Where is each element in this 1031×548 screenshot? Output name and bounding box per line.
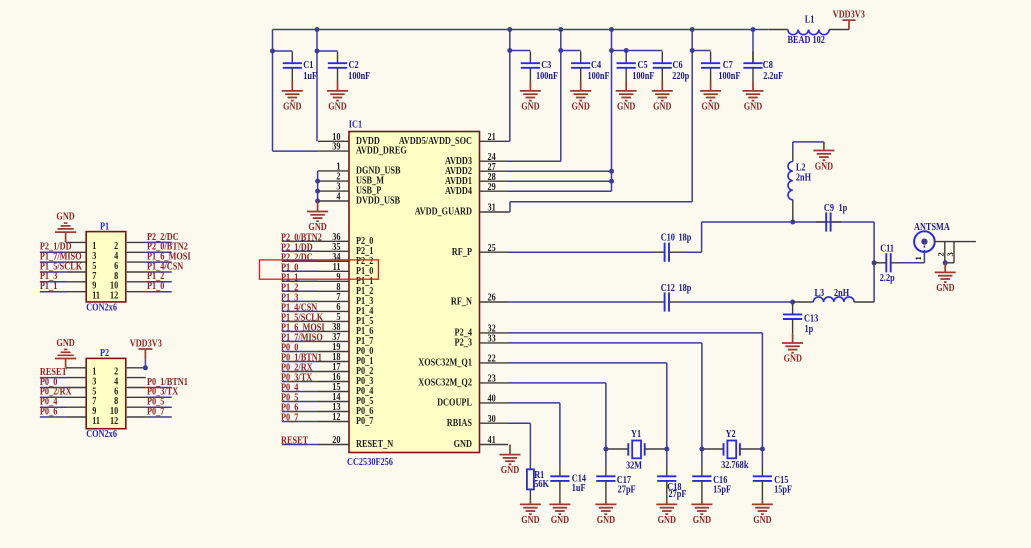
pin 26 RF_N (right): [451, 293, 508, 308]
wire + net P0_3/TX (P2 right): [146, 387, 179, 398]
capacitor C12: [652, 283, 691, 312]
pin 41 GND (right): [454, 435, 508, 450]
ground GND under C15: [752, 500, 773, 526]
svg-text:P2_3: P2_3: [455, 338, 473, 349]
pin 10 DVDD (left): [318, 132, 380, 147]
svg-text:BEAD 102: BEAD 102: [788, 35, 826, 46]
wire pin29: [508, 190, 612, 192]
svg-text:56K: 56K: [534, 479, 549, 490]
wire pin27: [508, 170, 612, 172]
svg-text:32M: 32M: [626, 461, 642, 472]
pin 27 AVDD2 (right): [445, 162, 508, 177]
wire + net P2_2/DC (P1 right): [146, 232, 179, 243]
svg-text:RF_N: RF_N: [451, 297, 472, 308]
capacitor C5: [617, 52, 655, 83]
wire + net P0_2/RX: [281, 363, 318, 374]
svg-text:220p: 220p: [672, 71, 689, 82]
wire C1 feed: [270, 49, 292, 54]
capacitor C17: [596, 449, 635, 500]
pin 8 of P1: [114, 271, 146, 282]
svg-text:2.2uF: 2.2uF: [763, 71, 783, 82]
svg-text:1: 1: [913, 256, 923, 260]
wire pin28: [508, 180, 612, 182]
svg-text:Y2: Y2: [726, 429, 736, 440]
pin 14 P0_5 (left): [318, 392, 374, 407]
wire + net P0_2/RX (P2 left): [40, 387, 72, 398]
pin 2 USB_M (left): [318, 172, 384, 187]
pin 3 of P1: [66, 251, 97, 262]
svg-text:CON2x6: CON2x6: [86, 429, 117, 440]
svg-text:GND: GND: [308, 222, 326, 233]
crystal Y1: [603, 429, 669, 472]
svg-text:IC1: IC1: [349, 120, 363, 131]
pin 8 of P2: [114, 396, 146, 407]
ground GND under antenna: [935, 263, 956, 295]
pin 12 P0_7 (left): [318, 412, 374, 427]
pin 4 DVDD_USB (left): [318, 192, 401, 207]
wire + net P2_0/BTN2 (P1 right): [146, 242, 188, 253]
svg-text:C9: C9: [824, 203, 834, 214]
pin 37 P1_7 (left): [318, 332, 374, 347]
selection box (red) around P1_0 / P1_1: [260, 260, 379, 279]
pin 3 of ANTSMA: [945, 242, 955, 263]
wire C5 C6 feed / AVDD2 AVDD1 AVDD4 drop: [609, 30, 662, 192]
svg-text:GND: GND: [454, 439, 472, 450]
wire + net P1_7/MISO (P1 left): [40, 252, 82, 263]
pin 25 RF_P (right): [452, 243, 508, 258]
svg-text:P0_7: P0_7: [281, 413, 299, 424]
pin 11 of P1: [66, 291, 100, 302]
wire + net P1_4/CSN (P1 right): [146, 262, 184, 273]
wire + net P0_4: [281, 383, 318, 394]
pin 28 AVDD1 (right): [445, 172, 508, 187]
wire pin21 to rail: [508, 140, 510, 142]
svg-text:32.768k: 32.768k: [721, 460, 749, 471]
pin 11 of P2: [66, 416, 100, 427]
svg-text:23: 23: [487, 374, 495, 385]
pin 13 P0_6 (left): [318, 402, 374, 417]
antenna connector ANTSMA: [914, 222, 950, 252]
svg-text:26: 26: [487, 293, 495, 304]
inductor L2: [788, 142, 824, 225]
svg-text:100nF: 100nF: [632, 71, 654, 82]
wire + net P0_6 (P2 left): [40, 407, 66, 418]
pin 17 P0_2 (left): [318, 362, 374, 377]
svg-text:CC2530F256: CC2530F256: [347, 457, 393, 468]
pin 6 P1_4 (left): [318, 302, 374, 317]
pin 6 of P2: [114, 386, 146, 397]
wire + net P2_1/DD (P1 left): [40, 242, 72, 253]
ground GND under R1: [520, 500, 541, 526]
svg-text:11: 11: [92, 416, 100, 427]
svg-text:18p: 18p: [678, 283, 691, 294]
pin 9 P1_1 (left): [318, 272, 374, 287]
pin 35 P2_1 (left): [318, 242, 374, 257]
ground GND under C8: [743, 81, 764, 113]
svg-text:AVDD_GUARD: AVDD_GUARD: [415, 207, 472, 218]
wire + net P2_2/DC: [281, 252, 318, 263]
wire pin24: [508, 160, 561, 162]
wire + net P1_5/SCLK: [281, 313, 324, 324]
svg-text:C10: C10: [661, 233, 675, 244]
svg-text:XOSC32M_Q2: XOSC32M_Q2: [418, 378, 472, 389]
pin 8 P1_2 (left): [318, 282, 374, 297]
svg-text:XOSC32M_Q1: XOSC32M_Q1: [418, 358, 472, 369]
svg-text:P1: P1: [100, 222, 109, 233]
svg-text:41: 41: [487, 435, 495, 446]
svg-text:P1_0: P1_0: [147, 281, 165, 292]
svg-text:VDD3V3: VDD3V3: [833, 9, 865, 20]
svg-text:11: 11: [92, 291, 100, 302]
svg-text:GND: GND: [744, 102, 762, 113]
capacitor C16: [692, 449, 731, 500]
wire + net P0_0 (P2 left): [40, 377, 66, 388]
svg-text:GND: GND: [653, 102, 671, 113]
svg-text:GND: GND: [501, 465, 519, 476]
pin 4 of P1: [114, 251, 146, 262]
wire + net P2_0/BTN2: [281, 232, 322, 243]
svg-text:GND: GND: [617, 102, 635, 113]
svg-text:GND: GND: [597, 515, 615, 526]
svg-text:GND: GND: [283, 102, 301, 113]
pin 23 XOSC32M_Q2 (right): [418, 374, 508, 389]
capacitor C4: [571, 52, 610, 83]
svg-text:C13: C13: [804, 313, 818, 324]
svg-text:C11: C11: [880, 244, 894, 255]
svg-text:GND: GND: [56, 338, 74, 349]
ground GND under C4: [570, 81, 591, 113]
capacitor C13: [783, 302, 818, 335]
svg-text:AVDD4: AVDD4: [445, 186, 472, 197]
ground GND under C17: [595, 500, 616, 526]
svg-text:CON2x6: CON2x6: [86, 302, 117, 313]
capacitor C1: [283, 52, 318, 83]
pin 1 of P2: [66, 367, 97, 378]
connector P1 CON2x6 body: [86, 222, 126, 314]
svg-text:DCOUPL: DCOUPL: [437, 398, 472, 409]
pin 4 of P2: [114, 377, 146, 388]
wire C2 feed / DVDD drop: [315, 30, 338, 142]
svg-text:P0_6: P0_6: [40, 407, 58, 418]
pin 1 of ANTSMA: [913, 252, 925, 263]
wire + net P1_2 (P1 right): [146, 271, 172, 282]
ground GND under C3: [520, 81, 541, 113]
wire + net P0_4 (P2 left): [40, 397, 66, 408]
wire AVDD_DREG (pin 39): [273, 51, 319, 151]
pin 5 of P2: [66, 386, 97, 397]
wire USB pins tie: [315, 171, 320, 204]
ground GND under C1: [282, 81, 303, 113]
ground GND at pin 41: [500, 445, 521, 477]
pin 16 P0_3 (left): [318, 372, 374, 387]
wire + net P1_3: [281, 293, 318, 304]
svg-text:20: 20: [332, 435, 340, 446]
capacitor C8: [743, 52, 783, 83]
pin 5 P1_5 (left): [318, 312, 374, 327]
wire VDD3V3 top rail: [273, 30, 769, 52]
svg-text:C5: C5: [638, 60, 648, 71]
svg-text:3: 3: [945, 252, 955, 256]
wire C4 feed / AVDD3 drop: [558, 30, 580, 162]
svg-text:C6: C6: [673, 60, 683, 71]
svg-text:GND: GND: [693, 515, 711, 526]
svg-text:12: 12: [332, 412, 340, 423]
pin 40 DCOUPL (right): [437, 394, 508, 409]
pin 7 of P1: [66, 271, 97, 282]
pin 2 of P1: [114, 241, 146, 252]
svg-text:22: 22: [487, 354, 495, 365]
wire RF_N: [508, 300, 795, 305]
svg-text:1p: 1p: [804, 324, 813, 335]
wire + net P0_1/BTN1 (P2 right): [146, 377, 188, 388]
ground GND at P2 pin1: [55, 338, 76, 368]
svg-text:100nF: 100nF: [718, 71, 740, 82]
capacitor C18: [657, 449, 686, 500]
svg-text:RESET: RESET: [281, 436, 309, 447]
svg-text:DVDD_USB: DVDD_USB: [356, 196, 401, 207]
pin 3 of P2: [66, 377, 97, 388]
wire RF_P: [508, 222, 874, 252]
svg-text:2nH: 2nH: [834, 288, 850, 299]
pin 5 of P1: [66, 261, 97, 272]
ground GND under C14: [549, 500, 570, 526]
svg-text:33: 33: [487, 334, 495, 345]
wire C8 drop: [752, 30, 754, 64]
svg-text:P2: P2: [100, 348, 109, 359]
pin 2 of ANTSMA: [936, 242, 946, 263]
svg-text:C8: C8: [763, 60, 773, 71]
svg-text:Y1: Y1: [631, 429, 641, 440]
pin 19 P0_0 (left): [318, 342, 374, 357]
svg-text:RBIAS: RBIAS: [447, 418, 472, 429]
wire + net P0_5: [281, 393, 318, 404]
capacitor C9: [816, 203, 847, 231]
svg-text:GND: GND: [815, 161, 833, 172]
svg-text:C12: C12: [661, 283, 675, 294]
op-amp U1 : IC1 CC2530F256 chip body: [347, 120, 480, 468]
svg-text:100nF: 100nF: [348, 71, 370, 82]
power VDD3V3 (top right): [833, 9, 865, 29]
wire + net P0_7: [281, 413, 318, 424]
svg-text:2.2p: 2.2p: [880, 273, 895, 284]
pin 9 of P2: [66, 406, 97, 417]
capacitor C2: [328, 52, 371, 83]
svg-text:L1: L1: [805, 15, 815, 26]
wire C3 feed / AVDD5 drop: [507, 30, 530, 142]
wire + net RESET (P2 left): [40, 367, 68, 378]
ground GND under C18: [656, 500, 677, 526]
ground GND for USB pins: [307, 201, 328, 233]
capacitor C14: [550, 466, 586, 500]
pin 39 AVDD_DREG (left): [318, 142, 407, 157]
pin 12 of P2: [110, 416, 146, 427]
svg-text:P0_7: P0_7: [147, 407, 165, 418]
inductor L3: [793, 288, 875, 302]
wire + net P0_5 (P2 right): [146, 397, 172, 408]
svg-text:RF_P: RF_P: [452, 247, 472, 258]
svg-text:18p: 18p: [678, 233, 691, 244]
pin 33 P2_3 (right): [455, 334, 508, 349]
pin 6 of P1: [114, 261, 146, 272]
svg-text:GND: GND: [572, 102, 590, 113]
svg-text:GND: GND: [521, 102, 539, 113]
svg-text:31: 31: [487, 203, 495, 214]
wire DCOUPL (pin 40) to C14: [508, 403, 560, 466]
power VDD3V3 at P2 pin2: [130, 339, 162, 371]
svg-text:27pF: 27pF: [618, 485, 636, 496]
wire + net P1_6_MOSI (P1 right): [146, 252, 191, 263]
inductor L1: [769, 15, 849, 47]
pin 24 AVDD3 (right): [445, 152, 508, 167]
svg-text:100nF: 100nF: [588, 71, 610, 82]
svg-text:25: 25: [487, 243, 495, 254]
wire + net P1_2: [281, 282, 318, 293]
wire antenna shield tie: [943, 260, 954, 265]
wire + net P0_3/TX: [281, 373, 318, 384]
svg-text:GND: GND: [551, 515, 569, 526]
capacitor C11: [874, 244, 924, 285]
wire + net RESET: [281, 436, 318, 447]
wire + net P1_0 (P1 right): [146, 281, 172, 292]
capacitor C7: [701, 52, 741, 83]
svg-text:C3: C3: [541, 60, 551, 71]
resistor R1: [527, 464, 550, 500]
pin 1 DGND_USB (left): [318, 162, 401, 177]
svg-text:L3: L3: [814, 288, 824, 299]
svg-text:29: 29: [487, 182, 495, 193]
wire RBIAS (pin 30) to R1: [508, 423, 530, 464]
svg-text:C1: C1: [303, 60, 313, 71]
wire + net P1_5/SCLK (P1 left): [40, 262, 83, 273]
svg-text:P1_1: P1_1: [40, 281, 58, 292]
pin 11 P1_0 (left): [318, 262, 374, 277]
pin 32 P2_4 (right): [455, 324, 508, 339]
svg-text:12: 12: [110, 416, 118, 427]
svg-text:P0_7: P0_7: [356, 416, 374, 427]
wire + net P0_0: [281, 343, 318, 354]
wire + net P0_1/BTN1: [281, 353, 322, 364]
wire XOSC32M_Q2 (pin 23) to Y1 left: [508, 383, 606, 449]
pin 22 XOSC32M_Q1 (right): [418, 354, 508, 369]
pin 7 P1_3 (left): [318, 292, 374, 307]
svg-text:AVDD5/AVDD_SOC: AVDD5/AVDD_SOC: [399, 136, 472, 147]
pin 29 AVDD4 (right): [445, 182, 508, 197]
connector P2 CON2x6 body: [86, 348, 126, 440]
pin 10 of P1: [110, 281, 146, 292]
node rail junction dots: [315, 27, 756, 32]
wire + net P2_1/DD: [281, 242, 318, 253]
pin 15 P0_4 (left): [318, 382, 374, 397]
svg-text:RESET_N: RESET_N: [356, 439, 393, 450]
ground GND under C6: [652, 81, 673, 113]
svg-text:GND: GND: [701, 102, 719, 113]
pin 36 P2_0 (left): [318, 232, 374, 247]
svg-text:C7: C7: [723, 60, 733, 71]
pin 34 P2_2 (left): [318, 252, 374, 267]
svg-text:C4: C4: [591, 60, 601, 71]
pin 9 of P1: [66, 281, 97, 292]
wire XOSC32M_Q1 (pin 22) to Y1 right: [508, 363, 667, 449]
pin 30 RBIAS (right): [447, 414, 508, 429]
svg-text:100nF: 100nF: [536, 71, 558, 82]
svg-text:GND: GND: [56, 212, 74, 223]
svg-text:27pF: 27pF: [668, 489, 686, 500]
wire RF matching vertical: [872, 222, 877, 302]
pin 20 RESET_N (left): [318, 435, 393, 450]
svg-text:GND: GND: [328, 102, 346, 113]
wire + net P1_6_MOSI: [281, 323, 325, 334]
svg-text:1p: 1p: [838, 203, 847, 214]
wire + net P0_7 (P2 right): [146, 407, 172, 418]
wire + net P1_3 (P1 left): [40, 271, 66, 282]
wire pin31 AVDD_GUARD: [508, 202, 692, 212]
wire + net P1_7/MISO: [281, 333, 323, 344]
svg-text:GND: GND: [521, 515, 539, 526]
ground GND above L2: [813, 142, 834, 173]
pin 31 AVDD_GUARD (right): [415, 203, 508, 218]
pin 7 of P2: [66, 396, 97, 407]
svg-text:GND: GND: [658, 515, 676, 526]
ground GND under C2: [327, 81, 348, 113]
wire + net P1_1 (P1 left): [40, 281, 66, 292]
capacitor C3: [521, 52, 558, 83]
ground GND at P1 pin1: [55, 212, 76, 243]
capacitor C15: [753, 449, 792, 500]
capacitor C10: [652, 233, 691, 262]
pin 2 of P2: [114, 367, 146, 378]
ground GND under C5: [616, 81, 637, 113]
svg-text:4: 4: [336, 192, 340, 203]
pin 10 of P2: [110, 406, 146, 417]
crystal Y2: [699, 429, 765, 471]
wire + net P1_0: [281, 262, 318, 273]
capacitor C6: [653, 52, 689, 83]
wire P2_3 (pin 33) to Y2 left: [508, 343, 702, 449]
ground GND under C13: [782, 334, 803, 365]
svg-text:GND: GND: [784, 354, 802, 365]
svg-text:2nH: 2nH: [796, 173, 812, 184]
wire P2_4 (pin 32) to Y2 right: [508, 333, 762, 449]
wire + net P1_4/CSN: [281, 303, 318, 314]
svg-text:39: 39: [332, 142, 340, 153]
svg-text:15pF: 15pF: [774, 485, 792, 496]
pin 12 of P1: [110, 291, 146, 302]
ground GND under C7: [700, 81, 721, 113]
pin 21 AVDD5/AVDD_SOC (right): [399, 132, 508, 147]
svg-text:30: 30: [487, 414, 495, 425]
pin 3 USB_P (left): [318, 182, 381, 197]
wire antenna top: [935, 241, 976, 243]
svg-text:GND: GND: [936, 283, 954, 294]
svg-text:1uF: 1uF: [303, 71, 317, 82]
pin 38 P1_6 (left): [318, 322, 374, 337]
svg-text:AVDD_DREG: AVDD_DREG: [356, 146, 407, 157]
svg-text:40: 40: [487, 394, 495, 405]
ground GND under C16: [691, 500, 712, 526]
svg-text:12: 12: [110, 291, 118, 302]
wire + net P0_6: [281, 403, 318, 414]
wire + net P1_1: [281, 272, 318, 283]
svg-text:GND: GND: [753, 515, 771, 526]
pin 18 P0_1 (left): [318, 352, 374, 367]
svg-text:VDD3V3: VDD3V3: [130, 339, 162, 350]
svg-text:15pF: 15pF: [713, 485, 731, 496]
pin 1 of P1: [66, 241, 97, 252]
svg-text:1uF: 1uF: [572, 483, 586, 494]
svg-text:C2: C2: [348, 60, 358, 71]
svg-text:21: 21: [487, 132, 495, 143]
wire C7 feed / AVDD_GUARD drop: [690, 30, 711, 202]
